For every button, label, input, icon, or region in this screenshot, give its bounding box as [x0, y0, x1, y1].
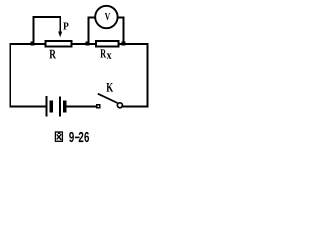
wire voltmeter right stub	[118, 17, 125, 19]
node A junction dot	[31, 41, 35, 45]
caption digit 6	[84, 132, 89, 142]
caption digit 2	[79, 132, 84, 142]
wire R to node B	[72, 43, 86, 45]
resistor Rx	[96, 41, 119, 47]
wire node C to top right corner	[125, 43, 148, 45]
label Rx subscript x	[107, 53, 112, 58]
wire top left	[10, 43, 32, 45]
node C junction dot	[122, 41, 126, 45]
wire switch to battery	[66, 106, 96, 108]
wire potentiometer tap vertical	[33, 16, 35, 42]
label Rx base R	[100, 49, 106, 57]
wire bottom right to switch hinge	[122, 106, 148, 108]
battery cell 1 short plate	[50, 100, 53, 112]
caption hyphen	[75, 137, 80, 139]
label K	[106, 83, 113, 92]
wire right vertical	[146, 43, 148, 107]
node B junction dot	[85, 41, 89, 45]
caption glyph tu (图)	[55, 132, 62, 141]
slider arrowhead	[58, 32, 62, 38]
battery cell 2 long plate	[59, 96, 61, 116]
battery cell 1 long plate	[46, 96, 48, 116]
wire voltmeter left stub	[87, 17, 95, 19]
wire left vertical	[9, 43, 11, 107]
resistor R (rheostat body)	[46, 41, 72, 47]
wire bottom left	[10, 106, 46, 108]
wire node B to Rx	[89, 43, 96, 45]
wire node A to R	[34, 43, 46, 45]
voltmeter label V	[105, 13, 110, 20]
caption digit 9	[69, 132, 74, 142]
switch K blade	[98, 94, 118, 103]
wire potentiometer tap horizontal	[33, 16, 61, 18]
voltmeter U1 circle	[95, 6, 117, 28]
wire voltmeter left vertical	[87, 17, 89, 42]
label R	[49, 50, 56, 59]
switch K left terminal	[97, 105, 100, 108]
switch K hinge ring	[117, 103, 122, 108]
wire voltmeter right vertical	[123, 17, 125, 42]
wire Rx to node C	[119, 43, 123, 45]
slider arrow stem	[59, 16, 61, 32]
label P	[63, 22, 68, 29]
battery cell 2 short plate	[63, 100, 67, 112]
